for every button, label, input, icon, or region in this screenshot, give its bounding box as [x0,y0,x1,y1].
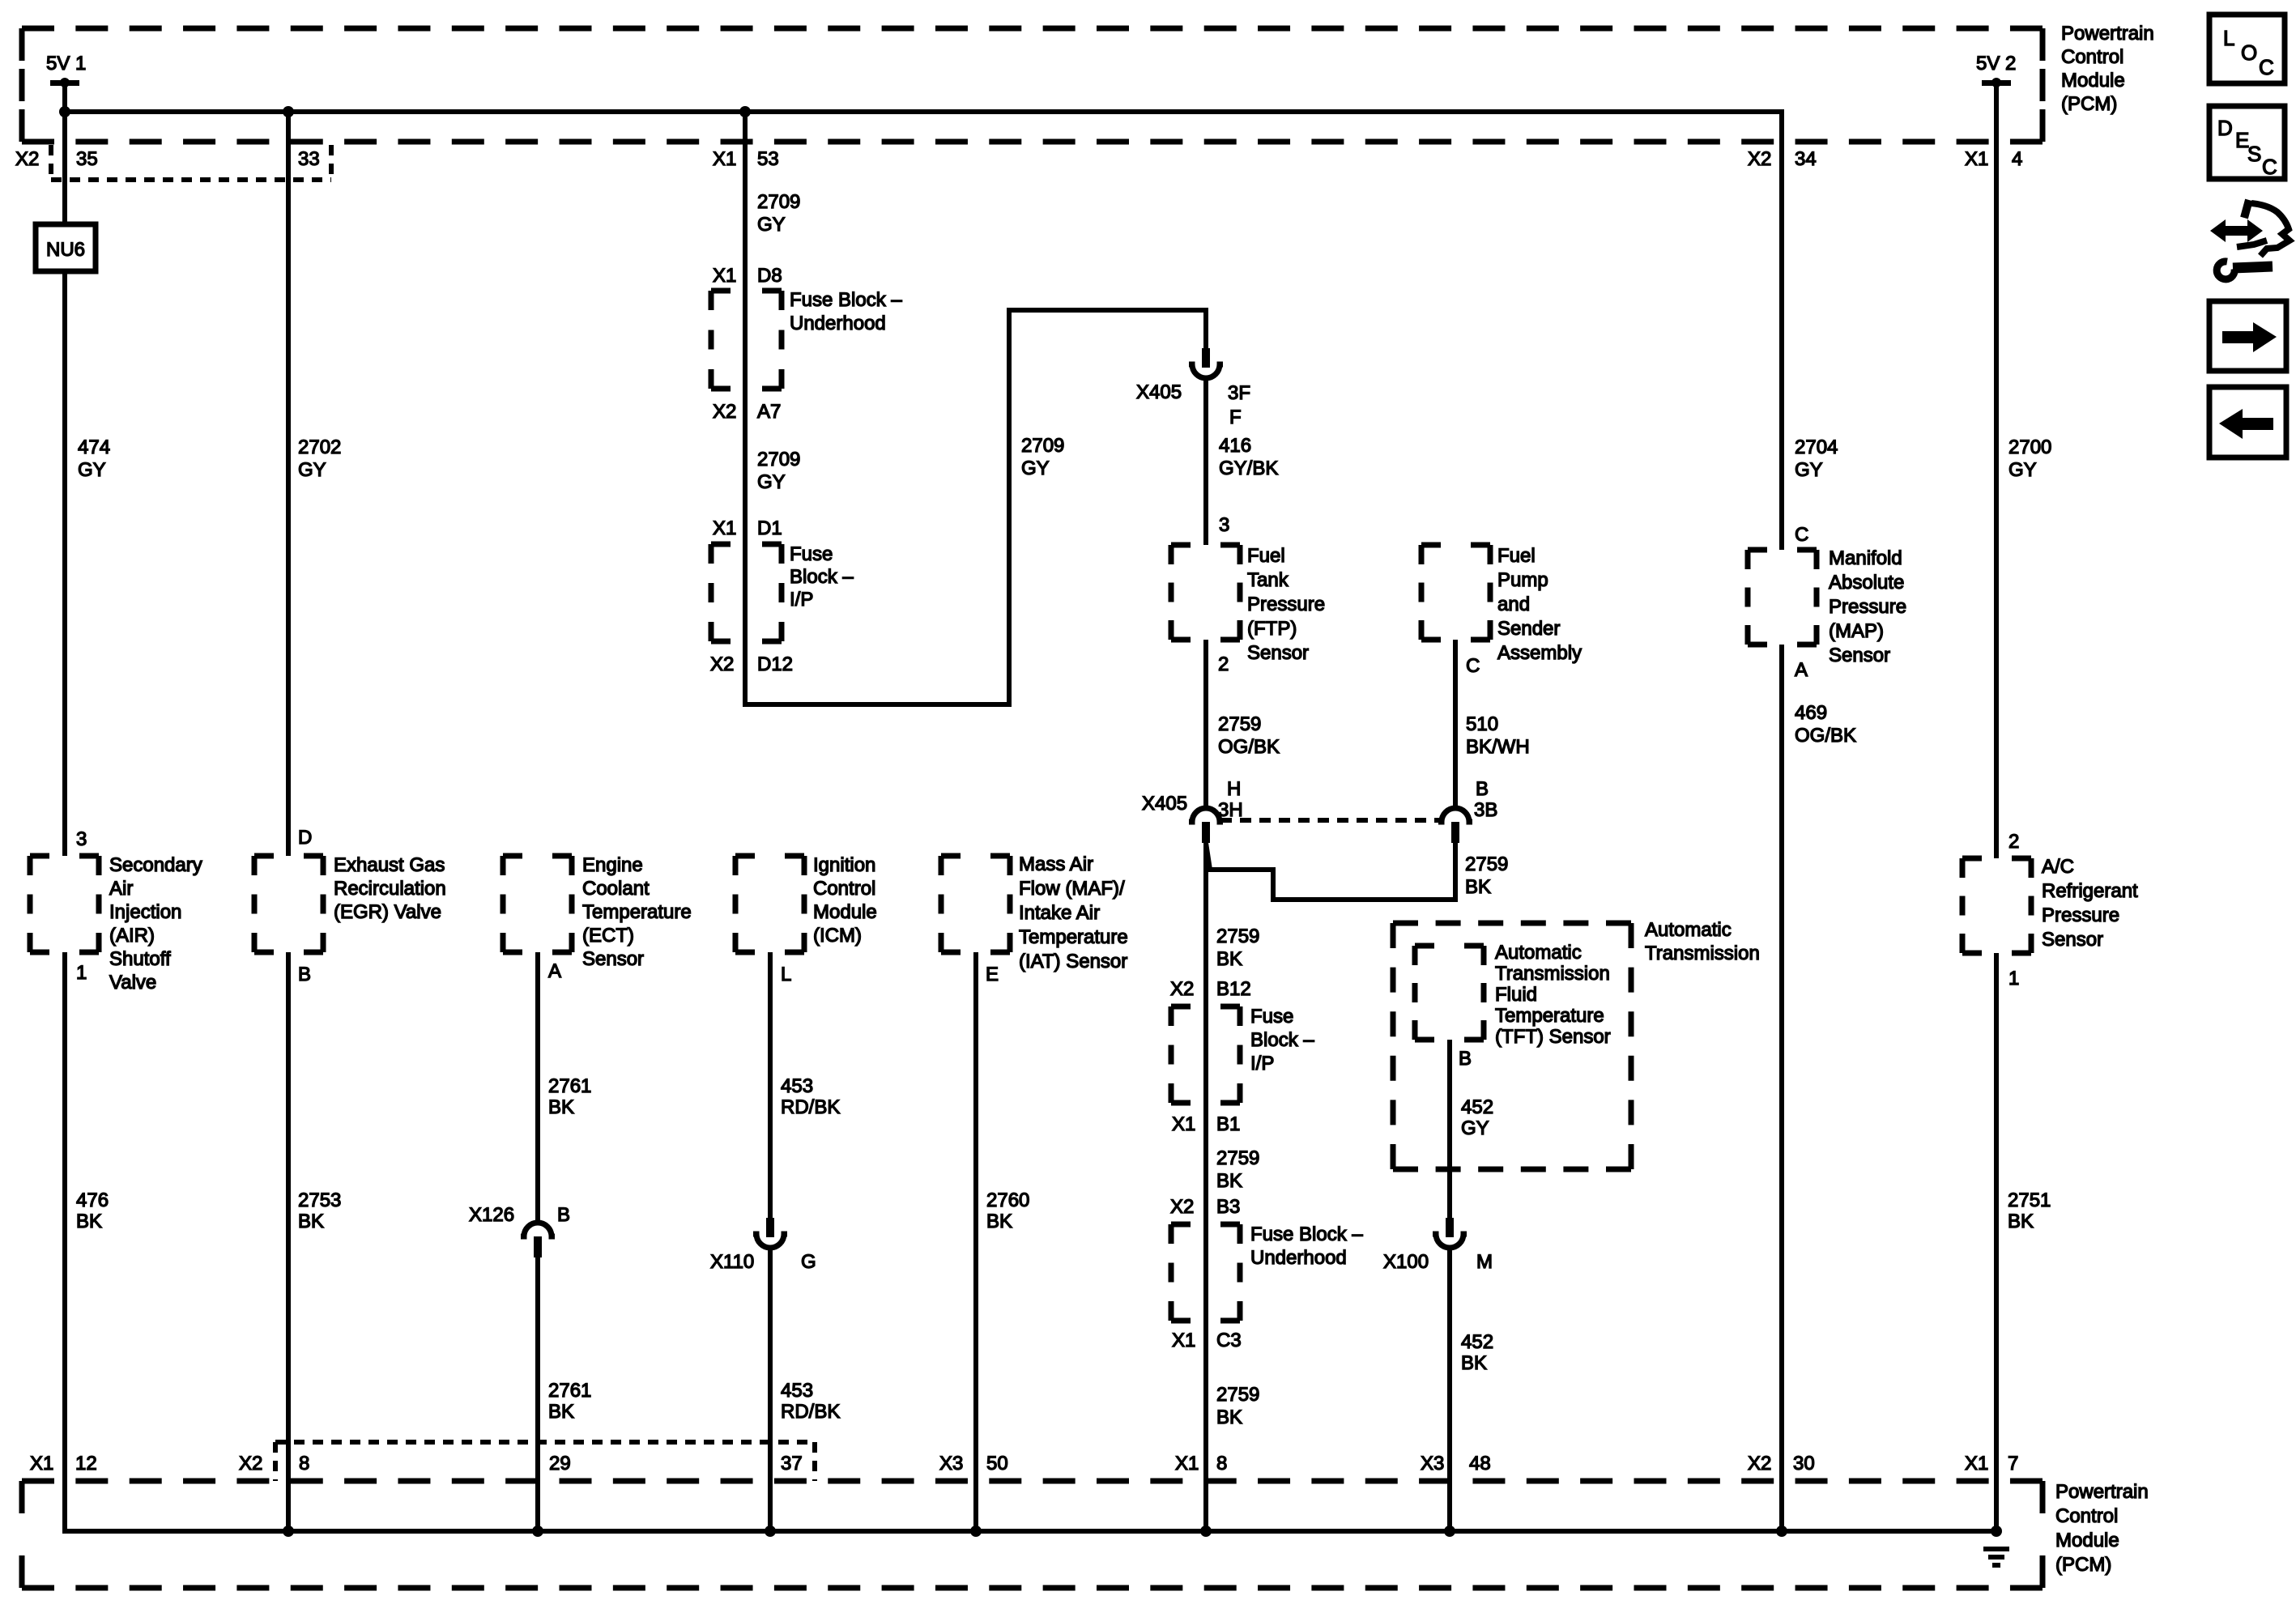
svg-text:2702: 2702 [298,436,341,458]
svg-text:X2: X2 [710,653,734,675]
icon box DESC [2209,106,2285,179]
svg-text:C: C [2262,155,2277,179]
wire W6 jog down-right-up [745,310,1206,704]
wire label 2759 BK (B1-B3) [1216,1147,1259,1192]
svg-text:452: 452 [1461,1331,1493,1353]
junction dot bus2/W9 [1776,1526,1787,1537]
icon box LOC [2209,15,2285,83]
label EGR Valve [334,854,446,923]
connector Fuse Block Underhood #1 [711,291,782,389]
connector X405 dashed link [1220,818,1441,823]
svg-text:2700: 2700 [2008,436,2051,458]
splice X405 3H [1189,808,1223,843]
svg-text:X1: X1 [1965,1453,1988,1474]
wire label 453 RD/BK lower [781,1380,840,1423]
svg-text:Refrigerant: Refrigerant [2042,880,2138,902]
label Secondary AIR Shutoff Valve [109,854,202,994]
svg-text:BK: BK [986,1211,1012,1232]
wire W4 lower 453 RD/BK [768,1247,773,1531]
connector Fuse Block I/P #2 [1171,1006,1240,1103]
svg-text:X1: X1 [713,148,736,170]
svg-text:C: C [1466,655,1480,677]
PCM module top dashed box [22,28,2043,142]
svg-text:Pressure: Pressure [1829,596,1906,618]
svg-text:D12: D12 [757,653,793,675]
svg-text:1: 1 [76,962,87,984]
svg-text:5V 1: 5V 1 [46,53,86,74]
wire label 2704 GY [1795,436,1838,481]
junction dot bus2/W4 [765,1526,776,1537]
svg-text:B12: B12 [1216,978,1251,1000]
svg-text:X3: X3 [939,1453,963,1474]
wire label 2759 OG/BK [1218,713,1280,758]
splice X126 [521,1223,555,1257]
wire W6 416 GY/BK [1203,377,1208,545]
wire label 2700 GY [2008,436,2051,481]
svg-text:X1: X1 [30,1453,53,1474]
wire W4 upper 453 RD/BK [768,952,773,1219]
svg-text:B: B [1476,778,1489,800]
connector ECT Sensor [503,856,572,952]
icon service outline arrow [2237,200,2290,256]
splice X100 [1433,1218,1467,1248]
label Fuel Pump and Sender Assembly [1497,545,1582,664]
svg-text:BK: BK [1216,1170,1242,1192]
svg-text:3: 3 [76,828,87,850]
svg-text:B1: B1 [1216,1113,1240,1135]
junction dot bus2/W6 [1200,1526,1212,1537]
svg-text:L: L [781,964,791,985]
junction dot bus/W6 [739,106,751,117]
svg-text:(EGR) Valve: (EGR) Valve [334,901,441,923]
svg-text:GY: GY [298,459,326,481]
connector Fuse Block Underhood #2 [1171,1224,1240,1321]
svg-text:416: 416 [1219,435,1251,457]
svg-text:A/C: A/C [2042,856,2074,878]
svg-text:469: 469 [1795,702,1827,724]
svg-text:Transmission: Transmission [1645,943,1760,964]
junction dot bus2/W10 [1991,1526,2002,1537]
terminal bar 5V1 [50,80,79,86]
svg-text:(AIR): (AIR) [109,925,155,947]
svg-text:37: 37 [781,1453,803,1474]
splice X405 3B [1438,808,1472,843]
svg-text:BK: BK [1465,876,1491,898]
svg-text:Fuel: Fuel [1247,545,1285,567]
svg-text:X1: X1 [713,265,736,287]
svg-text:453: 453 [781,1380,813,1402]
svg-text:(ECT): (ECT) [582,925,634,947]
svg-text:GY: GY [78,459,106,481]
svg-text:BK: BK [1216,948,1242,970]
label PCM top [2061,23,2154,115]
svg-text:(MAP): (MAP) [1829,620,1884,642]
svg-text:2751: 2751 [2008,1189,2051,1211]
svg-text:Exhaust Gas: Exhaust Gas [334,854,445,876]
wire label 2751 BK [2008,1189,2051,1232]
connector X2 dotted group (pins 8,29,37) [275,1442,815,1481]
svg-text:Mass Air: Mass Air [1019,853,1093,875]
connector Secondary AIR Shutoff Valve [30,856,99,952]
svg-text:D: D [298,827,312,849]
svg-text:BK: BK [76,1211,102,1232]
wire label 476 BK [76,1189,109,1232]
svg-text:X110: X110 [710,1251,754,1273]
connector Fuse Block I/P #1 [711,544,782,641]
label MAF/IAT Sensor [1019,853,1128,972]
svg-text:O: O [2241,40,2257,65]
label Automatic Transmission [1645,919,1760,964]
svg-text:53: 53 [757,148,779,170]
svg-text:Recirculation: Recirculation [334,878,446,900]
svg-text:Fuse Block –: Fuse Block – [1250,1223,1363,1245]
svg-text:Block –: Block – [790,566,854,588]
svg-text:X405: X405 [1136,381,1182,403]
svg-text:GY: GY [1461,1117,1489,1139]
svg-text:L: L [2223,26,2234,50]
svg-text:1: 1 [2008,968,2019,989]
svg-text:D1: D1 [757,517,782,539]
svg-text:Sensor: Sensor [1829,645,1890,666]
svg-text:C: C [2259,55,2274,79]
svg-text:BK: BK [1216,1406,1242,1428]
junction dot bus2/W2 [283,1526,294,1537]
svg-text:2759: 2759 [1216,1384,1259,1406]
svg-text:Block –: Block – [1250,1029,1314,1051]
junction dot bus2/W3 [532,1526,543,1537]
icon service wrench [2217,262,2273,279]
wire W6 2759 BK seg3 (through I/P #2) [1203,843,1208,1105]
svg-text:Sensor: Sensor [582,948,644,970]
wire label 2759 BK (above B12) [1216,926,1259,970]
junction dot bus2/W8 [1444,1526,1455,1537]
wire label 474 GY [78,436,110,481]
svg-text:29: 29 [549,1453,571,1474]
wire 5V1 drop [62,83,67,115]
svg-text:GY: GY [757,471,786,493]
wire label 2761 BK lower [548,1380,591,1423]
svg-text:B: B [298,964,311,985]
svg-text:7: 7 [2008,1453,2018,1474]
svg-text:2704: 2704 [1795,436,1838,458]
svg-text:B: B [557,1204,570,1226]
connector MAP Sensor [1748,550,1817,645]
svg-text:and: and [1497,594,1530,615]
wire label 469 OG/BK [1795,702,1856,747]
svg-text:GY: GY [757,214,786,236]
svg-text:50: 50 [986,1453,1008,1474]
svg-text:3: 3 [1219,514,1229,536]
svg-text:E: E [986,964,999,985]
wire W1 mid [62,271,67,856]
svg-text:2759: 2759 [1218,713,1261,735]
wire W1 lower 476 BK [62,952,67,1534]
icon box arrow left [2209,387,2286,457]
svg-text:BK: BK [2008,1211,2034,1232]
label Fuse Block I/P #1 [790,543,854,611]
junction dot bus2/W5 [970,1526,982,1537]
svg-text:Pressure: Pressure [1247,594,1325,615]
svg-text:Pressure: Pressure [2042,904,2119,926]
svg-text:Module: Module [2055,1530,2119,1551]
svg-text:(ICM): (ICM) [813,925,862,947]
svg-text:Sensor: Sensor [1247,642,1309,664]
svg-text:2709: 2709 [757,449,800,470]
wire label 452 BK [1461,1331,1493,1374]
svg-text:Injection: Injection [109,901,181,923]
svg-text:C: C [1795,524,1808,546]
wire label 2759 BK (C3-8) [1216,1384,1259,1428]
svg-text:8: 8 [299,1453,309,1474]
svg-text:X100: X100 [1383,1251,1429,1273]
svg-text:Module: Module [2061,70,2125,91]
svg-text:RD/BK: RD/BK [781,1401,840,1423]
svg-text:5V 2: 5V 2 [1976,53,2016,74]
svg-text:2759: 2759 [1216,1147,1259,1169]
svg-text:X2: X2 [1748,1453,1771,1474]
svg-text:Module: Module [813,901,877,923]
wire label 2753 BK [298,1189,341,1232]
svg-text:Pump: Pump [1497,569,1548,591]
svg-text:X2: X2 [1170,978,1194,1000]
svg-text:OG/BK: OG/BK [1218,736,1280,758]
wire label 452 GY [1461,1096,1493,1139]
wire W8 452 BK [1447,1247,1452,1531]
svg-text:2761: 2761 [548,1075,591,1097]
svg-text:B: B [1459,1048,1472,1070]
svg-text:2761: 2761 [548,1380,591,1402]
svg-text:Transmission: Transmission [1495,963,1610,985]
svg-text:Control: Control [813,878,875,900]
svg-text:X1: X1 [1175,1453,1199,1474]
wire ground bus [62,1529,1996,1534]
wire W8 452 GY [1447,1040,1452,1219]
terminal bar 5V2 [1982,80,2011,86]
svg-text:BK: BK [1461,1352,1487,1374]
svg-text:2753: 2753 [298,1189,341,1211]
svg-text:510: 510 [1466,713,1498,735]
svg-text:X1: X1 [1172,1330,1195,1351]
svg-text:X2: X2 [239,1453,262,1474]
svg-text:NU6: NU6 [46,239,85,261]
svg-text:Absolute: Absolute [1829,572,1904,594]
icon service double arrow [2210,219,2263,242]
wire top 5V bus [62,109,1782,114]
svg-text:2: 2 [1218,653,1229,675]
svg-text:X1: X1 [1172,1113,1195,1135]
svg-text:(TFT) Sensor: (TFT) Sensor [1495,1026,1611,1048]
icon box arrow right [2209,301,2286,371]
svg-text:Fuse: Fuse [1250,1006,1293,1028]
svg-text:G: G [801,1251,816,1273]
svg-text:BK: BK [548,1096,574,1118]
label Fuse Block Underhood #1 [790,289,902,334]
svg-text:I/P: I/P [1250,1053,1274,1074]
svg-text:RD/BK: RD/BK [781,1096,840,1118]
svg-text:Air: Air [109,878,133,900]
wire label 2760 BK [986,1189,1029,1232]
svg-text:(FTP): (FTP) [1247,618,1297,640]
label ECT Sensor [582,854,692,970]
connector FTP Sensor [1171,545,1240,640]
assembly box Automatic Transmission [1393,923,1631,1169]
svg-text:2759: 2759 [1465,853,1508,875]
wire label 2709 GY #2 [757,449,800,493]
option box NU6 [36,224,96,271]
svg-text:M: M [1476,1251,1493,1273]
label TFT Sensor [1495,942,1611,1048]
svg-text:12: 12 [75,1453,97,1474]
svg-text:GY: GY [1021,457,1050,479]
svg-text:Fuse: Fuse [790,543,833,565]
svg-text:Ignition: Ignition [813,854,875,876]
svg-text:2: 2 [2008,831,2019,853]
svg-text:2759: 2759 [1216,926,1259,947]
wire W5 2760 BK [973,952,978,1531]
wire W6 2759 OG/BK [1203,640,1208,809]
wire label 2759 BK (branch) [1465,853,1508,898]
wire W6 2759 BK seg4 (through Underhood #2) [1203,1103,1208,1323]
svg-text:OG/BK: OG/BK [1795,725,1856,747]
svg-text:Shutoff: Shutoff [109,948,171,970]
svg-text:Flow (MAF)/: Flow (MAF)/ [1019,878,1125,900]
connector X2 dotted group (pins 35,33) [51,145,331,182]
svg-text:48: 48 [1469,1453,1491,1474]
svg-text:3F: 3F [1228,382,1250,404]
svg-text:BK: BK [298,1211,324,1232]
svg-text:4: 4 [2012,148,2022,170]
wire W3 upper 2761 BK [535,952,540,1223]
svg-text:474: 474 [78,436,110,458]
svg-text:35: 35 [76,148,98,170]
svg-text:S: S [2247,142,2261,166]
svg-text:476: 476 [76,1189,109,1211]
svg-text:Underhood: Underhood [790,313,886,334]
svg-text:GY/BK: GY/BK [1219,457,1278,479]
svg-text:X405: X405 [1142,793,1187,815]
wire W2 lower 2753 BK [286,952,291,1531]
label MAP Sensor [1829,547,1906,666]
svg-text:Manifold: Manifold [1829,547,1902,569]
svg-text:X2: X2 [15,148,39,170]
svg-text:A: A [548,960,561,982]
connector MAF/IAT Sensor [941,856,1010,952]
svg-text:F: F [1229,406,1242,428]
svg-text:Fuel: Fuel [1497,545,1536,567]
junction dot bus/W2 [283,106,294,117]
svg-text:Assembly: Assembly [1497,642,1582,664]
svg-text:(PCM): (PCM) [2055,1554,2111,1576]
svg-text:X1: X1 [1965,148,1988,170]
svg-text:Control: Control [2055,1505,2118,1527]
svg-text:A7: A7 [757,401,781,423]
wire W9 469 OG/BK [1779,645,1784,1531]
splice X110 [753,1218,787,1248]
svg-text:X3: X3 [1421,1453,1444,1474]
svg-text:Sender: Sender [1497,618,1560,640]
svg-text:Control: Control [2061,46,2123,68]
wire W2 upper 2702 GY [286,112,291,856]
wire W1 upper [62,112,67,227]
svg-text:BK/WH: BK/WH [1466,736,1530,758]
svg-text:X1: X1 [713,517,736,539]
wire W7 510 BK/WH [1453,640,1458,809]
svg-text:I/P: I/P [790,589,813,611]
label Fuse Block I/P #2 [1250,1006,1314,1074]
svg-text:A: A [1795,659,1808,681]
svg-text:Temperature: Temperature [1495,1005,1604,1027]
svg-text:Powertrain: Powertrain [2061,23,2154,45]
svg-text:Engine: Engine [582,854,643,876]
svg-text:Temperature: Temperature [582,901,692,923]
svg-text:453: 453 [781,1075,813,1097]
svg-text:GY: GY [2008,459,2037,481]
svg-text:2760: 2760 [986,1189,1029,1211]
connector TFT Sensor [1415,946,1484,1040]
connector A/C Refrigerant Pressure Sensor [1962,858,2031,953]
ground symbol (PCM internal) [1983,1549,2009,1565]
svg-text:X2: X2 [1170,1196,1194,1218]
svg-text:34: 34 [1795,148,1817,170]
svg-text:X2: X2 [1748,148,1771,170]
svg-text:D8: D8 [757,265,782,287]
wire W10 2700 GY [1994,83,1999,858]
wire label 416 GY/BK [1219,435,1278,479]
svg-text:Intake Air: Intake Air [1019,902,1100,924]
svg-text:D: D [2217,116,2233,140]
wire label 2702 GY [298,436,341,481]
wire W9 2704 GY [1779,109,1784,550]
junction dot bus/W1 [59,106,70,117]
label ICM [813,854,877,947]
wire W6 2759 BK seg5 [1203,1321,1208,1531]
wire W10 2751 BK [1994,953,1999,1531]
svg-text:Sensor: Sensor [2042,929,2103,951]
wire label 453 RD/BK upper [781,1075,840,1118]
svg-text:2709: 2709 [1021,435,1064,457]
svg-text:Tank: Tank [1247,569,1289,591]
svg-text:Automatic: Automatic [1495,942,1582,964]
svg-text:Fuse Block –: Fuse Block – [790,289,902,311]
label Fuse Block Underhood #2 [1250,1223,1363,1269]
svg-text:2709: 2709 [757,191,800,213]
svg-text:30: 30 [1793,1453,1815,1474]
label FTP Sensor [1247,545,1325,664]
svg-text:Powertrain: Powertrain [2055,1481,2149,1503]
PCM module bottom dashed box [22,1481,2043,1588]
svg-text:Fluid: Fluid [1495,984,1537,1006]
wire label 2709 GY #3 [1021,435,1064,479]
svg-text:(PCM): (PCM) [2061,93,2117,115]
svg-text:B3: B3 [1216,1196,1240,1218]
svg-text:H: H [1227,778,1241,800]
svg-text:(IAT) Sensor: (IAT) Sensor [1019,951,1127,972]
svg-text:C3: C3 [1216,1330,1242,1351]
wire W6 2709 GY seg1 (through fuse blocks) [743,112,748,644]
svg-text:Temperature: Temperature [1019,926,1128,948]
svg-text:8: 8 [1216,1453,1227,1474]
connector EGR Valve [254,856,323,952]
svg-text:3B: 3B [1474,799,1497,821]
svg-text:33: 33 [298,148,320,170]
wire label 510 BK/WH [1466,713,1530,758]
svg-text:Underhood: Underhood [1250,1247,1347,1269]
connector Fuel Pump and Sender Assembly [1421,545,1490,640]
svg-text:BK: BK [548,1401,574,1423]
wire label 2709 GY #1 [757,191,800,236]
label PCM bottom [2055,1481,2149,1576]
wire label 2761 BK upper [548,1075,591,1118]
